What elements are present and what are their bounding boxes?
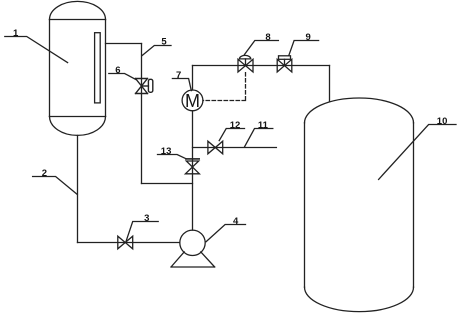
valve V13 hourglass body (185, 161, 199, 174)
vessel V1 internal sight glass tube (95, 33, 101, 103)
wire branch line 11 from pump column (193, 147, 277, 149)
tank T10 bottom head (305, 287, 414, 311)
vessel V1 shell walls (50, 20, 106, 117)
wire tank T10 inlet drop (329, 66, 331, 102)
wire vessel outlet down line (node 2) (77, 135, 79, 242)
valve V9 solenoid box actuator (279, 56, 291, 60)
wire line 5 vertical drop through valve 6 (141, 44, 143, 184)
label 5 leader (142, 46, 171, 56)
svg-text:6: 6 (115, 65, 120, 76)
valve V8 diaphragm dome actuator (239, 55, 250, 59)
svg-text:3: 3 (144, 213, 149, 224)
svg-text:8: 8 (265, 32, 270, 43)
valve V8 stem (245, 59, 247, 66)
tank T10 shell walls (305, 123, 414, 287)
svg-text:7: 7 (176, 70, 181, 81)
svg-text:M: M (185, 91, 200, 111)
label 3 leader (126, 222, 158, 242)
valve V12 bowtie body (208, 141, 223, 154)
valve V13 top seat bar (186, 158, 199, 160)
svg-text:4: 4 (233, 216, 239, 227)
label 1 leader (5, 37, 68, 63)
label 12 leader (219, 129, 244, 141)
label 10 leader (379, 125, 456, 180)
wire vessel side nozzle to line 5 (106, 43, 142, 45)
svg-text:9: 9 (305, 32, 310, 43)
svg-text:13: 13 (161, 146, 172, 157)
valve V9 bowtie body (277, 56, 292, 72)
device U7 riser to top header (192, 66, 194, 91)
label 13 leader (158, 155, 187, 159)
label 2 leader (33, 177, 78, 195)
label 4 leader (206, 225, 245, 242)
tank T10 top head (305, 98, 414, 123)
valve V9 stem (284, 59, 286, 65)
svg-text:11: 11 (258, 120, 269, 131)
label 6 leader (109, 74, 136, 80)
wire bottom of line 5 over to pump column (142, 183, 193, 185)
vessel V1 bottom head (50, 117, 106, 136)
device U7 motor circle (182, 90, 203, 111)
pump P4 casing circle (180, 230, 205, 255)
label 11 leader (245, 129, 273, 147)
dashed control signal from valve V8 to device U7 (203, 73, 246, 101)
pump P4 base triangle (171, 252, 215, 267)
valve V6 hourglass body (136, 79, 153, 94)
label 9 leader (289, 41, 319, 56)
valve V3 bowtie body (118, 236, 133, 249)
valve V8 bowtie body (238, 55, 253, 72)
vessel V1 top head (50, 1, 106, 19)
svg-text:2: 2 (42, 168, 47, 179)
label 8 leader (244, 41, 278, 55)
svg-text:12: 12 (230, 120, 241, 131)
wire top header from U7 riser to tank drop (193, 65, 330, 67)
valve V6 side stem (142, 85, 149, 87)
svg-text:10: 10 (437, 116, 448, 127)
wire device U7 down to pump (192, 111, 194, 230)
svg-text:1: 1 (13, 28, 19, 39)
wire pump suction line through valve 3 to pump (78, 242, 180, 244)
label 7 leader (172, 79, 191, 91)
valve V6 side handwheel tab (148, 79, 152, 92)
svg-text:5: 5 (161, 37, 167, 48)
